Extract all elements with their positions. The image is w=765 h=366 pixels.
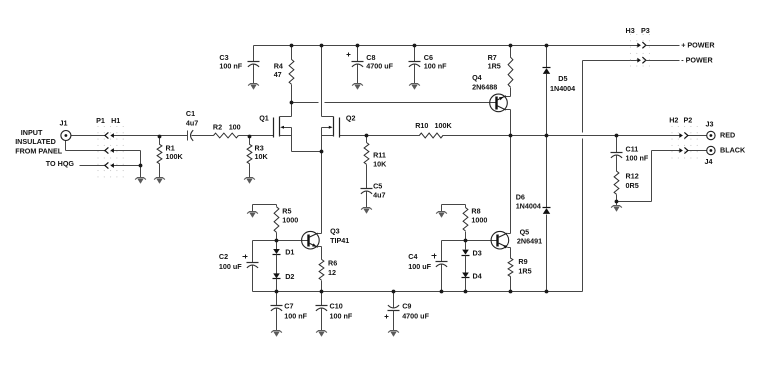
svg-text:Q5: Q5 xyxy=(520,227,530,236)
resistor R8 xyxy=(463,205,468,241)
svg-text:INPUT: INPUT xyxy=(21,128,43,137)
label D6 xyxy=(516,192,525,201)
label 4700 uF xyxy=(366,61,393,70)
svg-text:1R5: 1R5 xyxy=(488,61,501,70)
resistor R4 xyxy=(289,46,294,103)
ground C5 xyxy=(361,208,372,214)
label 100 uF xyxy=(408,262,431,271)
wire Q5 base line xyxy=(442,240,498,242)
label C1 xyxy=(186,109,195,118)
ground C7 xyxy=(271,331,282,337)
resistor R11 xyxy=(364,136,369,189)
connector J1 xyxy=(61,131,71,141)
label C5 xyxy=(373,181,382,190)
label D5 xyxy=(558,74,567,83)
ground R8 xyxy=(436,205,447,218)
svg-text:C5: C5 xyxy=(373,181,382,190)
svg-text:100 nF: 100 nF xyxy=(626,153,649,162)
ground R1 xyxy=(154,178,165,184)
svg-text:1000: 1000 xyxy=(282,215,298,224)
label 100 nF xyxy=(330,312,353,321)
svg-text:R11: R11 xyxy=(373,151,386,160)
wire input line J1 to C1 xyxy=(71,135,188,137)
resistor R3 xyxy=(247,136,252,178)
diode D2 xyxy=(273,255,281,292)
label R9 xyxy=(518,257,527,266)
capacitor C1 xyxy=(188,130,194,141)
svg-text:2N6488: 2N6488 xyxy=(472,83,497,92)
wire output line Q2 gate to R10 xyxy=(340,135,420,137)
svg-text:Q1: Q1 xyxy=(259,114,269,123)
diode D5 xyxy=(543,46,551,136)
label R6 xyxy=(328,258,337,267)
capacitor C4 xyxy=(432,241,448,292)
svg-text:10K: 10K xyxy=(255,152,269,161)
svg-text:C9: C9 xyxy=(402,302,411,311)
label 100 xyxy=(229,122,241,131)
ground R12 xyxy=(611,202,622,212)
grid dots power connector xyxy=(630,34,650,67)
label P1 xyxy=(96,116,105,125)
label Q5 xyxy=(520,227,530,236)
svg-text:4u7: 4u7 xyxy=(186,118,198,127)
svg-text:D6: D6 xyxy=(516,192,525,201)
label 1000 xyxy=(471,215,487,224)
wire -V riser to -POWER xyxy=(583,61,638,292)
label C6 xyxy=(424,53,433,62)
label TO HQG xyxy=(46,159,75,168)
label J1 xyxy=(60,119,68,128)
label J4 xyxy=(705,157,713,166)
wire sources to Q3 collector xyxy=(321,152,323,234)
ground input shield xyxy=(135,178,146,184)
label 2N6491 xyxy=(517,236,542,245)
label 100 uF xyxy=(219,262,242,271)
svg-text:D2: D2 xyxy=(285,272,294,281)
svg-text:100: 100 xyxy=(229,122,241,131)
svg-text:100 uF: 100 uF xyxy=(408,262,431,271)
ground C10 xyxy=(316,331,327,337)
label 1N4004 xyxy=(516,201,541,210)
label 0R5 xyxy=(626,181,639,190)
svg-text:R12: R12 xyxy=(626,171,639,180)
label C3 xyxy=(219,53,228,62)
label H2 xyxy=(669,115,678,124)
transistor Q2 xyxy=(322,46,340,152)
svg-text:4700 uF: 4700 uF xyxy=(366,61,393,70)
svg-text:1N4004: 1N4004 xyxy=(516,201,541,210)
svg-text:J3: J3 xyxy=(706,119,714,128)
svg-text:P1: P1 xyxy=(96,116,105,125)
label 4u7 xyxy=(186,118,198,127)
label 4u7 xyxy=(373,191,385,200)
diode D1 xyxy=(273,241,281,255)
ground C3 xyxy=(248,84,259,90)
svg-text:H2: H2 xyxy=(669,115,678,124)
ground R5 xyxy=(247,205,258,218)
svg-text:- POWER: - POWER xyxy=(681,55,713,64)
capacitor C10 xyxy=(316,292,328,331)
label R4 xyxy=(274,61,283,70)
capacitor C7 xyxy=(271,292,283,331)
label C2 xyxy=(219,252,228,261)
diode D4 xyxy=(462,256,470,292)
resistor R1 xyxy=(157,136,162,178)
label C11 xyxy=(626,144,639,153)
wire R5 top bracket xyxy=(253,204,277,206)
svg-text:R5: R5 xyxy=(282,206,291,215)
grid dots output connector xyxy=(671,126,697,159)
svg-text:D4: D4 xyxy=(473,271,482,280)
ground R3 xyxy=(244,178,255,184)
svg-text:Q3: Q3 xyxy=(330,226,340,235)
svg-text:+ POWER: + POWER xyxy=(681,40,715,49)
label 10K xyxy=(373,160,387,169)
svg-text:BLACK: BLACK xyxy=(720,146,746,155)
label TIP41 xyxy=(330,236,349,245)
wire -V bottom rail xyxy=(253,291,583,293)
label BLACK xyxy=(720,146,746,155)
ground C9 xyxy=(388,331,399,337)
svg-text:1R5: 1R5 xyxy=(518,266,531,275)
label INPUT xyxy=(21,128,43,137)
ground C6 xyxy=(409,84,420,90)
label D4 xyxy=(473,271,482,280)
capacitor C11 xyxy=(611,136,623,172)
label D3 xyxy=(473,248,482,257)
label C4 xyxy=(408,252,417,261)
connector J3 xyxy=(707,131,715,139)
label C8 xyxy=(366,53,375,62)
svg-text:100 uF: 100 uF xyxy=(219,262,242,271)
svg-text:47: 47 xyxy=(274,70,282,79)
transistor Q5 xyxy=(491,136,510,259)
label 100 nF xyxy=(219,61,242,70)
transistor Q1 xyxy=(274,103,322,152)
wire C1 to R2 xyxy=(192,135,214,137)
capacitor C5 xyxy=(361,189,373,208)
svg-text:J4: J4 xyxy=(705,157,713,166)
label RED xyxy=(720,130,735,139)
svg-text:R8: R8 xyxy=(471,206,480,215)
label R10 xyxy=(415,121,428,130)
svg-text:D5: D5 xyxy=(558,74,567,83)
label 1R5 xyxy=(488,61,501,70)
svg-text:C10: C10 xyxy=(330,302,343,311)
wire TO HQG row xyxy=(80,165,141,167)
connector P1 H1 row 1 xyxy=(105,132,114,138)
svg-text:H1: H1 xyxy=(111,116,120,125)
label Q3 xyxy=(330,226,340,235)
diode D3 xyxy=(462,241,470,256)
svg-text:12: 12 xyxy=(328,268,336,277)
svg-text:C4: C4 xyxy=(408,252,417,261)
svg-text:1N4004: 1N4004 xyxy=(550,84,575,93)
svg-text:100K: 100K xyxy=(435,121,453,130)
label R1 xyxy=(166,143,175,152)
label D2 xyxy=(285,272,294,281)
svg-text:D3: D3 xyxy=(473,248,482,257)
svg-text:TO HQG: TO HQG xyxy=(46,159,75,168)
svg-text:2N6491: 2N6491 xyxy=(517,236,542,245)
resistor R9 xyxy=(508,258,513,291)
transistor Q4 xyxy=(490,94,511,135)
label - POWER xyxy=(681,55,713,64)
label R12 xyxy=(626,171,639,180)
svg-text:C1: C1 xyxy=(186,109,195,118)
label 100 nF xyxy=(424,61,447,70)
wire shield to ground xyxy=(140,166,142,178)
svg-text:D1: D1 xyxy=(285,247,294,256)
svg-text:P2: P2 xyxy=(684,115,693,124)
wire Q3 base line xyxy=(253,240,309,242)
label R2 xyxy=(213,122,222,131)
label C9 xyxy=(402,302,411,311)
svg-text:4700 uF: 4700 uF xyxy=(402,312,429,321)
svg-text:100K: 100K xyxy=(166,152,184,161)
svg-text:C11: C11 xyxy=(626,144,639,153)
connector P1 H1 row 3 xyxy=(105,162,114,168)
svg-text:100 nF: 100 nF xyxy=(330,312,353,321)
svg-text:Q2: Q2 xyxy=(346,114,356,123)
resistor R10 xyxy=(419,133,443,138)
label C10 xyxy=(330,302,343,311)
label 12 xyxy=(328,268,336,277)
label + POWER xyxy=(681,40,715,49)
svg-text:100 nF: 100 nF xyxy=(424,61,447,70)
svg-text:R10: R10 xyxy=(415,121,428,130)
label INSULATED xyxy=(15,137,56,146)
capacitor C9 xyxy=(385,292,400,331)
label 100K xyxy=(166,152,184,161)
label 100 nF xyxy=(284,312,307,321)
diode D6 xyxy=(543,136,551,292)
label J3 xyxy=(706,119,714,128)
wire R8 top bracket xyxy=(442,204,466,206)
grid dots input connector xyxy=(97,126,123,178)
capacitor C6 xyxy=(409,46,421,84)
label R3 xyxy=(255,143,264,152)
connector J4 xyxy=(707,146,715,154)
wire output line R10 to J3 xyxy=(443,135,707,137)
svg-text:R6: R6 xyxy=(328,258,337,267)
svg-text:C2: C2 xyxy=(219,252,228,261)
svg-text:Q4: Q4 xyxy=(472,73,482,82)
svg-text:FROM PANEL: FROM PANEL xyxy=(15,147,63,156)
resistor R7 xyxy=(506,46,513,97)
label 4700 uF xyxy=(402,312,429,321)
capacitor C3 xyxy=(248,46,260,84)
wire J1 shield row xyxy=(66,141,141,166)
connector H2 P2 return row xyxy=(679,147,688,153)
label 100 nF xyxy=(626,153,649,162)
svg-text:R9: R9 xyxy=(518,257,527,266)
wire J4 return xyxy=(617,151,707,202)
connector H3 P3 +POWER xyxy=(637,42,679,48)
label P3 xyxy=(641,26,650,35)
svg-text:RED: RED xyxy=(720,130,735,139)
transistor Q3 xyxy=(302,231,322,259)
label R5 xyxy=(282,206,291,215)
resistor R12 xyxy=(614,171,619,202)
svg-text:0R5: 0R5 xyxy=(626,181,639,190)
svg-text:100 nF: 100 nF xyxy=(284,312,307,321)
label P2 xyxy=(684,115,693,124)
resistor R2 xyxy=(214,133,239,138)
label R11 xyxy=(373,151,386,160)
svg-text:R2: R2 xyxy=(213,122,222,131)
label 1000 xyxy=(282,215,298,224)
label H3 xyxy=(626,26,635,35)
svg-text:1000: 1000 xyxy=(471,215,487,224)
label 1R5 xyxy=(518,266,531,275)
svg-text:TIP41: TIP41 xyxy=(330,236,349,245)
svg-text:4u7: 4u7 xyxy=(373,191,385,200)
svg-text:P3: P3 xyxy=(641,26,650,35)
label 47 xyxy=(274,70,282,79)
capacitor C2 xyxy=(243,241,259,292)
label D1 xyxy=(285,247,294,256)
resistor R5 xyxy=(274,205,279,241)
svg-text:J1: J1 xyxy=(60,119,68,128)
capacitor C8 xyxy=(347,46,364,84)
wire +V top rail xyxy=(254,45,638,47)
svg-text:INSULATED: INSULATED xyxy=(15,137,56,146)
label 1N4004 xyxy=(550,84,575,93)
ground C8 xyxy=(352,84,363,90)
connector H3 P3 -POWER xyxy=(637,57,679,63)
label R8 xyxy=(471,206,480,215)
wire R2 to Q1 gate xyxy=(239,135,274,137)
connector P1 H1 row 2 xyxy=(105,147,114,153)
label 100K xyxy=(435,121,453,130)
label 2N6488 xyxy=(472,83,497,92)
label H1 xyxy=(111,116,120,125)
svg-text:100 nF: 100 nF xyxy=(219,61,242,70)
wire Q4 base line (hop over Q2 drain) xyxy=(292,102,497,104)
connector H2 P2 output row xyxy=(679,132,688,138)
label C7 xyxy=(284,302,293,311)
label R7 xyxy=(488,53,497,62)
svg-text:10K: 10K xyxy=(373,160,387,169)
label FROM PANEL xyxy=(15,147,63,156)
label Q2 xyxy=(346,114,356,123)
svg-text:C7: C7 xyxy=(284,302,293,311)
label Q1 xyxy=(259,114,269,123)
svg-text:H3: H3 xyxy=(626,26,635,35)
label Q4 xyxy=(472,73,482,82)
resistor R6 xyxy=(319,259,324,291)
label 10K xyxy=(255,152,269,161)
